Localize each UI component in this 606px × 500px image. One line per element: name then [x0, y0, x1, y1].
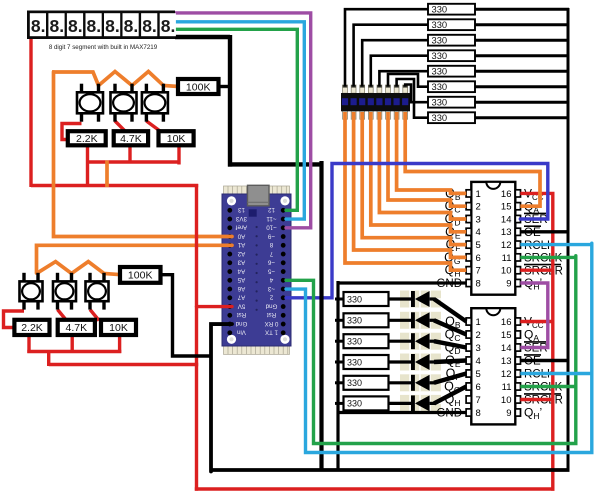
svg-text:6: 6: [476, 253, 481, 264]
wire red rail line1' (bottom resistors join): [27, 350, 121, 353]
U2 pin squares: [466, 318, 520, 416]
svg-text:7: 7: [476, 395, 481, 406]
svg-text:4: 4: [269, 276, 273, 283]
wire red U1 SRCLR pin10: [520, 269, 554, 272]
Arduino mounting holes: [227, 196, 290, 344]
wire black LED D5 to U2 pin5: [434, 374, 466, 383]
connector J1 top pin stubs: [343, 85, 408, 93]
svg-text:10: 10: [501, 395, 512, 406]
svg-text:16: 16: [501, 189, 512, 200]
wire orange top buttons to Arduino A0: [54, 72, 233, 237]
svg-text:A1: A1: [237, 241, 245, 248]
Arduino reset button (dark square): [249, 209, 257, 216]
wire red connector line1'-line2': [47, 352, 50, 367]
wire red 10K bottom drop: [118, 335, 121, 353]
resistor R8 (330): [428, 112, 475, 123]
resistor R22 (330, LED row 6): [335, 396, 389, 410]
wire orange header pin2 to U1 QG: [354, 112, 467, 257]
wire red 4.7K bottom drop: [70, 335, 73, 353]
U1 right pin labels: [524, 187, 563, 292]
svg-text:8.: 8.: [87, 16, 102, 36]
wire 330 R1 left lead to header pin1: [345, 9, 428, 86]
svg-text:5: 5: [476, 369, 481, 380]
svg-text:7: 7: [269, 250, 273, 257]
wire black vertical x=230: [228, 35, 232, 167]
LED D3: [389, 333, 436, 349]
resistor R12 (100K): [178, 79, 219, 94]
resistor R16 (100K): [120, 267, 161, 283]
wire green U1 SRCLK pin11: [520, 256, 577, 259]
svg-text:A4: A4: [237, 267, 245, 274]
push button S5: [53, 273, 76, 310]
wire red 2.2K bottom drop: [27, 335, 30, 353]
wire black LED D6 to U2 pin6: [434, 387, 466, 404]
LED D2: [389, 312, 436, 328]
resistor R11 (10K): [159, 131, 194, 145]
LED D3 background patch: [400, 333, 441, 350]
svg-text:13: 13: [501, 356, 512, 367]
wire black GND bus x=338 (LED/IC grounds): [336, 281, 339, 472]
wire red rail line1 (top resistors join): [86, 160, 181, 163]
svg-text:14: 14: [501, 214, 512, 225]
wire red rail line2' to 5V vertical: [49, 363, 199, 366]
svg-text:8.: 8.: [31, 16, 46, 36]
connector J1 body (8-pin header): [341, 93, 410, 111]
svg-text:1: 1: [476, 317, 481, 328]
svg-text:~9: ~9: [267, 232, 275, 239]
wire red branch to Arduino 5V pin: [197, 305, 233, 308]
svg-text:7: 7: [476, 266, 481, 277]
U2 pin numbers: [476, 317, 512, 419]
wire 330 resistor R7 right lead to bus: [475, 101, 569, 104]
svg-text:2: 2: [269, 294, 273, 301]
connector J1 bottom pin stubs: [343, 111, 408, 119]
svg-text:2.2K: 2.2K: [76, 133, 98, 145]
LED D6 background patch: [400, 395, 441, 412]
resistor R7 (330): [428, 96, 475, 107]
svg-text:Gnd: Gnd: [265, 302, 277, 309]
wire orange header pin1 to U1 QH: [345, 112, 466, 270]
LED D5: [389, 375, 436, 391]
Arduino Nano U3 USB connector: [248, 185, 270, 206]
svg-text:330: 330: [347, 399, 362, 409]
svg-text:15: 15: [501, 330, 512, 341]
op-amp/shift-register U2 body (74HC595 DIP-16): [471, 308, 515, 424]
connector J1 pin openings: [342, 98, 408, 105]
svg-text:A0: A0: [237, 232, 245, 239]
Arduino left pin dots: [227, 208, 232, 335]
svg-text:8.: 8.: [68, 16, 83, 36]
svg-text:A6: A6: [237, 285, 245, 292]
svg-text:~11: ~11: [266, 215, 277, 222]
svg-text:Aref: Aref: [236, 224, 248, 231]
LED D6: [389, 395, 436, 411]
resistor R17 (330, LED row 1): [335, 292, 389, 306]
Arduino center via dots: [256, 226, 258, 311]
svg-text:13: 13: [238, 206, 245, 213]
Arduino right pin dots: [281, 208, 286, 335]
wire light-blue Arduino pin3 RCLK loop: [286, 243, 592, 452]
wire red button S3 to 10K diagonal: [146, 121, 162, 133]
resistor R5 (330): [428, 65, 475, 76]
wire red 4.7K drop: [128, 145, 131, 163]
svg-text:330: 330: [432, 96, 448, 107]
wire 330 resistor R2 right lead to bus: [475, 23, 569, 26]
resistor R1 (330): [428, 3, 475, 14]
svg-text:2.2K: 2.2K: [21, 322, 43, 334]
svg-text:0 RX: 0 RX: [265, 320, 279, 327]
wire red U2 VCC pin16: [520, 320, 554, 323]
wire red rail line2 (top button group common): [31, 184, 198, 187]
wire 330 resistor R5 right lead to bus: [475, 70, 569, 73]
Arduino Nano U3 board: [222, 194, 291, 346]
svg-text:100K: 100K: [186, 81, 211, 93]
wire 330 R2 left lead to header pin2: [354, 25, 428, 87]
svg-text:~10: ~10: [266, 224, 277, 231]
push button S3: [142, 84, 168, 122]
wire green display to Arduino 12: [175, 29, 297, 210]
svg-text:330: 330: [432, 19, 448, 30]
wire 330 resistor R6 right lead to bus: [475, 85, 569, 88]
svg-text:3: 3: [476, 343, 481, 354]
svg-text:9: 9: [506, 408, 511, 419]
svg-text:12: 12: [268, 206, 275, 213]
wire green Arduino pin4 SRCLK loop: [286, 256, 576, 444]
wire orange stub between red rails: [105, 161, 109, 188]
wire red VCC vertical right rail: [551, 193, 554, 490]
svg-text:4: 4: [476, 227, 481, 238]
svg-text:4.7K: 4.7K: [120, 133, 142, 145]
svg-text:12: 12: [501, 369, 512, 380]
svg-text:QH’: QH’: [524, 406, 542, 422]
svg-text:Gnd: Gnd: [235, 320, 247, 327]
wire black top 100K right lead to vertical bus: [219, 85, 232, 88]
U1 pin numbers: [476, 189, 512, 290]
U1 pin squares: [466, 190, 520, 287]
svg-text:16: 16: [501, 317, 512, 328]
push button S4: [20, 273, 43, 310]
svg-text:8: 8: [269, 241, 273, 248]
svg-text:100K: 100K: [128, 270, 153, 282]
svg-text:10: 10: [501, 266, 512, 277]
resistor R13 (2.2K): [14, 320, 49, 335]
svg-text:4.7K: 4.7K: [65, 322, 87, 334]
wire black bottom GND bus: [210, 468, 570, 472]
svg-text:~3: ~3: [267, 285, 275, 292]
resistor R20 (330, LED row 4): [335, 355, 389, 369]
wire black bottom 100K to Arduino Gnd vertical: [161, 275, 213, 356]
LED D2 background patch: [400, 312, 441, 329]
wire purple display to Arduino ~10: [175, 13, 311, 228]
svg-text:330: 330: [432, 50, 448, 61]
wire 330 resistor R4 right lead to bus: [475, 54, 569, 57]
wire black Arduino Gnd down to bottom bus: [211, 324, 232, 471]
Arduino left pin labels (rotated 180): [235, 206, 247, 335]
wire orange zigzag over bottom buttons to 100K: [37, 262, 122, 275]
Arduino Nano U3 bottom pin-header strip: [224, 346, 290, 354]
svg-text:11: 11: [502, 382, 512, 393]
LED D4 background patch: [400, 354, 441, 371]
Arduino right pin labels (rotated 180): [265, 206, 279, 335]
svg-text:8: 8: [476, 278, 481, 289]
resistor R3 (330): [428, 34, 475, 45]
svg-text:5: 5: [476, 240, 481, 251]
wire black LED D2 to U2 pin2: [434, 320, 466, 334]
svg-text:8.: 8.: [142, 16, 157, 36]
wire 330 R3 left lead to header pin3: [362, 40, 428, 86]
wire orange header pin4 to U1 QE: [371, 112, 467, 232]
LED D5 background patch: [400, 374, 441, 391]
wire orange zigzag over top buttons to 100K: [52, 72, 179, 87]
wire red button S4 to 2.2K (bottom group): [4, 311, 25, 328]
wire light-blue U2 RCLK pin12: [520, 372, 593, 375]
svg-text:~5: ~5: [267, 267, 275, 274]
resistor R15 (10K): [101, 320, 136, 335]
wire 330 resistor R3 right lead to bus: [475, 39, 569, 42]
wire green U2 SRCLK pin11: [520, 385, 577, 388]
wire black U2 OE pin13: [520, 359, 569, 362]
wire 330 R8 left lead to header pin7: [397, 79, 428, 118]
svg-text:14: 14: [501, 343, 512, 354]
resistor R19 (330, LED row 3): [335, 334, 389, 348]
svg-text:3: 3: [476, 214, 481, 225]
wire black U1 OE pin13: [520, 230, 569, 233]
wire light-blue U1 RCLK pin12: [520, 243, 593, 246]
wire red bottom rail: [195, 487, 555, 490]
wire red U2 SRCLR pin10: [520, 398, 554, 401]
svg-text:13: 13: [501, 227, 512, 238]
U2 right pin labels: [524, 315, 563, 422]
svg-text:8: 8: [476, 408, 481, 419]
svg-text:8 digit 7 segment with built i: 8 digit 7 segment with built in MAX7219: [49, 44, 158, 51]
svg-text:11: 11: [502, 253, 512, 264]
svg-text:4: 4: [476, 356, 481, 367]
svg-text:330: 330: [347, 357, 362, 367]
svg-text:Rst: Rst: [237, 311, 247, 318]
LED D4: [389, 354, 436, 370]
wire 330 R6 left lead to header pin6: [388, 74, 428, 87]
wire purple U1 QH' (pin9) to U2 SER (pin14): [520, 283, 548, 348]
svg-text:10K: 10K: [109, 322, 128, 334]
U2 left pin labels QB-QH, GND: [436, 315, 462, 420]
svg-text:330: 330: [432, 112, 448, 123]
svg-text:8.: 8.: [50, 16, 65, 36]
wire orange header pin6 to U1 QC: [388, 112, 466, 206]
svg-text:1 TX: 1 TX: [265, 329, 278, 336]
wire orange header pin3 to U1 QF: [362, 112, 466, 245]
svg-text:6: 6: [476, 382, 481, 393]
push button S6: [86, 273, 109, 310]
wire red U1 VCC pin16: [520, 192, 554, 195]
wire orange header pin8 to U1 QA (pin15): [405, 112, 540, 206]
wire 330 R5 left lead to header pin5: [379, 71, 428, 86]
svg-text:A3: A3: [237, 259, 245, 266]
wire red 2.2K drop: [86, 145, 89, 187]
U1 left pin labels QB-QH, GND: [436, 186, 462, 290]
wire orange bottom buttons to Arduino A1: [37, 245, 233, 273]
Arduino Nano U3 top pin-header strip: [224, 186, 290, 194]
svg-text:330: 330: [432, 81, 448, 92]
wire red 5V vertical rail: [195, 184, 198, 491]
svg-text:1: 1: [476, 189, 481, 200]
resistor R6 (330): [428, 81, 475, 92]
svg-text:330: 330: [347, 378, 362, 388]
wire black U1 GND pin8: [337, 281, 467, 284]
wire red 10K drop: [177, 145, 180, 165]
resistor R9 (2.2K): [68, 131, 106, 145]
wire 330 resistor R8 right lead to bus: [475, 116, 569, 119]
resistor R21 (330, LED row 5): [335, 376, 389, 390]
wire display GND to vertical bus: [175, 35, 230, 39]
svg-text:330: 330: [432, 34, 448, 45]
svg-text:A7: A7: [237, 294, 245, 301]
wire light-blue display to Arduino ~11: [175, 22, 304, 219]
svg-text:8.: 8.: [161, 16, 176, 36]
svg-text:Rst: Rst: [267, 311, 277, 318]
wire black GND vertical x=321.5: [319, 161, 323, 472]
svg-text:2: 2: [476, 330, 481, 341]
wire orange header pin7 to U1 QB: [397, 112, 467, 193]
push button S1: [77, 84, 103, 122]
LED D1 background patch: [400, 291, 441, 308]
wire black LED D1 to U2 pin1: [434, 299, 466, 322]
svg-text:A2: A2: [237, 250, 245, 257]
wire orange header pin5 to U1 QD: [379, 112, 466, 219]
wire black LED D4 to U2 pin4: [434, 361, 466, 363]
wire 330 R4 left lead to header pin4: [371, 56, 428, 87]
svg-text:8.: 8.: [105, 16, 120, 36]
svg-text:3V3: 3V3: [235, 215, 247, 222]
svg-text:330: 330: [432, 3, 448, 14]
resistor R4 (330): [428, 50, 475, 61]
wire 330 resistor R1 right lead to bus: [475, 8, 569, 11]
wire black 330-resistor right bus / OE net vertical: [567, 8, 570, 472]
wire red from display bottom-left down: [29, 39, 32, 187]
wire red button S6 to 10K diagonal: [90, 310, 99, 321]
svg-text:8.: 8.: [124, 16, 139, 36]
svg-text:10K: 10K: [167, 133, 186, 145]
wire black U2 GND pin8: [337, 411, 467, 414]
svg-text:12: 12: [501, 240, 512, 251]
wire blue Arduino pin2 to U1 SER: [286, 164, 548, 298]
op-amp/shift-register U1 body (74HC595 DIP-16): [471, 182, 515, 295]
svg-text:~6: ~6: [267, 259, 275, 266]
svg-text:330: 330: [432, 65, 448, 76]
svg-text:330: 330: [347, 316, 362, 326]
resistor R18 (330, LED row 2): [335, 313, 389, 327]
svg-text:15: 15: [501, 202, 512, 213]
svg-text:5V: 5V: [237, 302, 245, 309]
wire 330 R7 left lead to header pin8: [405, 85, 428, 103]
svg-text:330: 330: [347, 337, 362, 347]
wire red button S1 to 2.2K: [62, 124, 82, 140]
resistor R14 (4.7K): [58, 320, 95, 335]
resistor R2 (330): [428, 19, 475, 30]
svg-text:A5: A5: [237, 276, 245, 283]
7-segment display DS1 (8 digit, MAX7219): [27, 11, 176, 40]
push button S2: [111, 84, 137, 122]
resistor R10 (4.7K): [114, 131, 148, 145]
svg-text:Vin: Vin: [237, 329, 246, 336]
wire black LED D3 to U2 pin3: [434, 341, 466, 347]
wire red button S5 to 4.7K diagonal: [58, 310, 67, 321]
wire red button S2 to 4.7K diagonal: [115, 121, 127, 133]
svg-text:9: 9: [506, 278, 511, 289]
svg-text:330: 330: [347, 294, 362, 304]
svg-text:2: 2: [476, 202, 481, 213]
LED D1: [389, 291, 436, 307]
wire black horizontal y=163 toward Arduino-right area: [228, 162, 324, 166]
